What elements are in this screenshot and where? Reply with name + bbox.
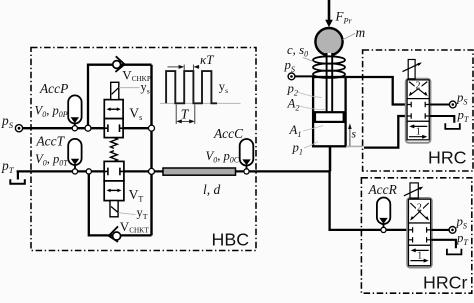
label y_T at V_T with leader [118, 206, 148, 222]
node p_S supply tap [15, 125, 22, 132]
svg-text:κT: κT [200, 52, 214, 67]
valve HRCr parallel-arrows position 1 [410, 248, 428, 262]
accumulator AccC [240, 139, 254, 171]
valve V_T body [104, 161, 124, 200]
valve V_S solenoid actuator [111, 82, 119, 99]
piston rod [327, 53, 333, 113]
label HRCr [423, 273, 468, 293]
svg-text:l, d: l, d [203, 182, 221, 197]
wire output bus vertical [150, 65, 152, 236]
junction node AccP [72, 126, 77, 131]
accumulator AccT [68, 139, 81, 172]
wire HRC valve to p_S tap [430, 103, 450, 105]
valve HRCr body [407, 198, 432, 268]
svg-text:AccR: AccR [368, 182, 397, 197]
HRCr enclosure dash-dot border [361, 178, 471, 293]
svg-text:HRC: HRC [428, 148, 467, 168]
valve V_T solenoid actuator [110, 201, 118, 217]
svg-text:s: s [352, 128, 357, 141]
label HBC [212, 230, 250, 250]
label HRC [428, 148, 467, 168]
label T [181, 107, 190, 122]
label m with leader [343, 25, 366, 40]
spring above V_T [111, 151, 118, 162]
label p_T left [1, 158, 15, 175]
accumulator AccR [377, 198, 390, 230]
pipe l,d gray rectangle [163, 168, 236, 175]
wire p_S supply line [19, 127, 152, 129]
wire HRC valve to tank [430, 116, 454, 123]
valve HRC proportional actuator [403, 60, 422, 79]
signal square wave y_s [166, 71, 217, 103]
label V0 p0T [35, 152, 68, 168]
accumulator AccP [68, 95, 81, 128]
wire transmission line to cylinder [152, 170, 331, 172]
HRC enclosure dash-dot border [363, 50, 473, 171]
valve HRC closed-port symbols [407, 102, 429, 119]
node p_S tap HRC [449, 101, 456, 108]
svg-text:m: m [356, 25, 366, 40]
junction node AccT [72, 169, 77, 174]
valve HRCr crossed-arrows position 2 [410, 202, 429, 220]
label y_s at plot [219, 79, 228, 95]
label AccR [368, 182, 397, 197]
valve V_S top-box arrow symbol [107, 107, 121, 111]
thin reference line cylinder to HRC border [346, 146, 363, 148]
signal plot baseline [160, 102, 241, 104]
tank symbol p_T left [10, 171, 24, 183]
svg-text:AccT: AccT [36, 133, 66, 148]
label p_S HRC [456, 91, 468, 107]
label A_2 with leader [287, 97, 326, 113]
label p_2 with leader [287, 82, 323, 98]
valve HRCr closed-port symbols [409, 227, 431, 242]
label V_CHKT [120, 219, 150, 235]
wire cylinder bottom port [329, 146, 332, 171]
label AccC [213, 126, 244, 141]
wire HRCr valve to tank [431, 240, 456, 248]
cylinder body HRC [313, 77, 346, 146]
label p_1 with leader [292, 141, 319, 157]
s dimension arrow [346, 123, 364, 146]
label V0 p0P [35, 104, 68, 120]
piston [315, 112, 344, 122]
svg-text:2: 2 [417, 202, 422, 213]
label y_s at V_S with leader [119, 80, 150, 96]
wire p_S tap to cylinder [295, 75, 313, 77]
label V_T [129, 187, 144, 204]
force F_Pr arrow [325, 0, 333, 27]
HBC enclosure dash-dot border [31, 48, 256, 251]
label V_S [129, 105, 142, 122]
label V0 p0C [206, 149, 240, 165]
svg-text:HBC: HBC [212, 230, 250, 250]
check valve V_CHKT [109, 226, 121, 242]
label F_Pr [335, 8, 353, 25]
label p_S HRCr [456, 215, 468, 231]
valve V_S closed-port symbols [104, 124, 123, 132]
wire p_T tank line [17, 170, 152, 172]
svg-text:AccC: AccC [213, 126, 244, 141]
label V_CHKP [122, 67, 151, 83]
tank symbol HRCr [447, 249, 462, 255]
label p_S left [1, 113, 14, 130]
label l, d [203, 182, 221, 197]
valve V_S body [104, 100, 123, 138]
wire HRC valve B-port to cylinder bottom [364, 116, 406, 148]
label p_T HRCr [456, 231, 469, 247]
junction node loop P [85, 125, 91, 131]
valve HRCr proportional actuator [404, 183, 423, 198]
wire HRCr valve to p_S tap [431, 229, 449, 231]
label c, s0 with leader [287, 43, 314, 62]
T dimension arrow [176, 105, 195, 125]
svg-text:AccP: AccP [39, 81, 68, 96]
node p_S tap at cylinder [288, 73, 295, 80]
junction node loop T [86, 169, 91, 174]
wire cylinder top to HRC valve A-port [346, 77, 407, 105]
valve V_T bottom-box arrow symbol [107, 189, 122, 193]
spring below V_S [111, 138, 118, 149]
valve V_T closed-port symbols [104, 168, 124, 176]
mass m circle [315, 28, 342, 55]
junction node bus pS [149, 125, 155, 131]
junction node bus pT [149, 168, 155, 174]
wire check-valve loop V_CHKT [89, 171, 152, 235]
svg-text:2: 2 [416, 81, 421, 92]
kappa-T dimension arrows [168, 65, 200, 71]
node p_S tap HRCr [449, 227, 456, 234]
label kappa-T [200, 52, 214, 67]
wire check-valve loop V_CHKP [88, 65, 152, 129]
junction node AccC [244, 169, 249, 174]
svg-text:1: 1 [417, 250, 422, 261]
label AccT [36, 133, 66, 148]
label AccP [39, 81, 68, 96]
label p_T HRC [457, 108, 470, 124]
svg-text:1: 1 [416, 126, 421, 137]
check valve V_CHKP [113, 56, 125, 72]
wire branch down to HRCr valve [330, 171, 408, 230]
label A_1 with leader [289, 123, 324, 139]
label p_S at cylinder [284, 58, 296, 74]
junction node AccR [381, 227, 386, 232]
tank symbol HRC [445, 123, 460, 129]
valve HRC crossed-arrows position 2 [409, 81, 428, 97]
valve HRC parallel-arrows position 1 [409, 124, 427, 138]
spring c,s0 coils [313, 56, 345, 78]
svg-text:HRCr: HRCr [423, 273, 468, 293]
valve HRC body [406, 79, 431, 143]
